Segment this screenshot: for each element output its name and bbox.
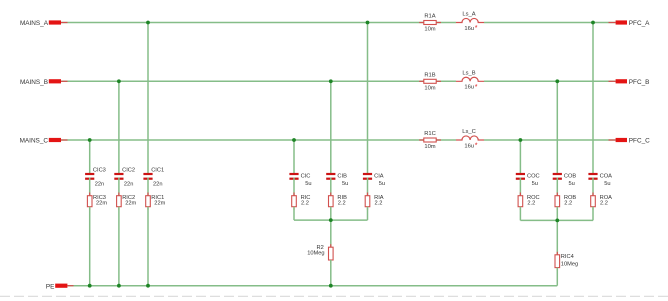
node PE / RIC3 xyxy=(88,284,92,288)
svg-text:22n: 22n xyxy=(124,181,133,187)
wire column COA from PFC_A xyxy=(592,23,594,176)
svg-text:COC: COC xyxy=(527,173,540,179)
svg-text:22m: 22m xyxy=(96,200,107,206)
svg-text:PFC_C: PFC_C xyxy=(629,138,650,145)
wire column CIA from MAINS_A xyxy=(367,23,369,176)
resistor RIC2 xyxy=(117,193,137,210)
wire RIC3 to PE rail xyxy=(89,207,91,286)
svg-text:COB: COB xyxy=(564,173,577,179)
wire COA-ROA xyxy=(592,178,594,196)
wire RIC2 to PE rail xyxy=(118,207,120,286)
svg-text:*: * xyxy=(475,23,478,32)
port PE xyxy=(46,283,74,290)
capacitor COC xyxy=(516,173,540,187)
svg-text:5u: 5u xyxy=(379,181,385,187)
node PE / RIC1 xyxy=(146,284,150,288)
wire CIC2-RIC2 xyxy=(118,178,120,196)
svg-text:RIC4: RIC4 xyxy=(561,254,574,260)
svg-text:16u: 16u xyxy=(464,85,474,91)
capacitor CIC3 xyxy=(85,168,106,188)
svg-text:MAINS_B: MAINS_B xyxy=(20,79,48,86)
wire PE rail xyxy=(67,285,557,287)
resistor R1C xyxy=(419,131,441,150)
svg-text:CIC1: CIC1 xyxy=(151,168,164,174)
svg-text:16u: 16u xyxy=(464,143,474,149)
resistor RIC3 xyxy=(87,193,107,210)
wire right bus to RIC4 xyxy=(556,220,558,254)
wire RIC to mid bus xyxy=(293,207,295,220)
node MAINS_C / CIC3 column xyxy=(88,138,92,142)
wire CIC3-RIC3 xyxy=(89,178,91,196)
svg-text:*: * xyxy=(475,82,478,91)
svg-text:R1C: R1C xyxy=(424,131,436,137)
wire column CIC1 from MAINS_A xyxy=(147,23,149,176)
node mid bus / R2 xyxy=(329,218,333,222)
svg-text:5u: 5u xyxy=(569,181,575,187)
svg-text:22n: 22n xyxy=(95,181,105,187)
node MAINS_B / CIC2 column xyxy=(117,79,121,83)
svg-text:2.2: 2.2 xyxy=(600,200,608,206)
wire CIC1-RIC1 xyxy=(147,178,149,196)
wire PFC_A rail (right segment) xyxy=(484,22,616,24)
node MAINS_C / CIC column xyxy=(292,138,296,142)
port PFC_B xyxy=(609,79,650,86)
wire mid star bus xyxy=(294,219,368,221)
svg-text:2.2: 2.2 xyxy=(564,200,572,206)
svg-text:PFC_B: PFC_B xyxy=(629,79,650,86)
port MAINS_C xyxy=(20,138,68,145)
node MAINS_A / CIA column xyxy=(366,21,370,25)
svg-text:CIC3: CIC3 xyxy=(93,168,106,174)
resistor ROC xyxy=(518,193,540,210)
wire RIC4 to PE rail xyxy=(556,268,558,286)
resistor ROB xyxy=(555,193,576,210)
wire ROA to right bus xyxy=(592,207,594,221)
wire CIA-RIA xyxy=(367,178,369,196)
svg-text:22n: 22n xyxy=(153,181,163,187)
svg-text:R1B: R1B xyxy=(424,72,435,78)
capacitor COB xyxy=(553,173,577,187)
wire RIB to mid bus xyxy=(330,207,332,220)
wire MAINS_A rail (left segment) xyxy=(61,22,456,24)
port MAINS_B xyxy=(20,79,68,86)
bottom dashed separator line xyxy=(0,295,668,297)
svg-text:CIC: CIC xyxy=(301,173,311,179)
svg-text:PFC_A: PFC_A xyxy=(629,20,650,27)
resistor R1A xyxy=(419,14,441,33)
resistor RIC xyxy=(292,193,311,210)
node MAINS_B / CIB column xyxy=(329,79,333,83)
resistor ROA xyxy=(591,193,612,210)
port PFC_C xyxy=(609,138,651,145)
svg-text:5u: 5u xyxy=(342,181,348,187)
port MAINS_A xyxy=(20,20,68,27)
capacitor CIC2 xyxy=(114,168,135,188)
svg-text:MAINS_C: MAINS_C xyxy=(20,138,49,145)
svg-text:CIC2: CIC2 xyxy=(122,168,135,174)
svg-text:16u: 16u xyxy=(464,26,474,32)
capacitor CIB xyxy=(326,173,348,187)
resistor RIC1 xyxy=(146,193,166,210)
node PE / R2 xyxy=(329,284,333,288)
svg-text:22m: 22m xyxy=(125,200,136,206)
svg-text:22m: 22m xyxy=(154,200,165,206)
inductor Ls_B xyxy=(456,70,484,91)
svg-text:PE: PE xyxy=(46,283,55,290)
svg-text:10m: 10m xyxy=(424,27,435,33)
wire column COC from PFC_C xyxy=(519,140,521,175)
svg-text:2.2: 2.2 xyxy=(527,200,535,206)
wire CIC-RIC xyxy=(293,178,295,196)
svg-text:Ls_A: Ls_A xyxy=(462,12,475,18)
svg-text:5u: 5u xyxy=(604,181,610,187)
wire column CIC3 from MAINS_C xyxy=(89,140,91,175)
svg-text:Ls_B: Ls_B xyxy=(462,70,475,76)
node PFC_C / COC column xyxy=(519,138,523,142)
svg-text:*: * xyxy=(475,141,478,150)
svg-text:10m: 10m xyxy=(424,86,435,92)
wire R2 to PE rail xyxy=(330,260,332,286)
svg-text:MAINS_A: MAINS_A xyxy=(20,20,49,27)
resistor R1B xyxy=(419,72,441,91)
svg-text:10Meg: 10Meg xyxy=(307,251,324,257)
svg-text:CIA: CIA xyxy=(374,173,384,179)
wire CIB-RIB xyxy=(330,178,332,196)
wire column COB from PFC_B xyxy=(556,81,558,175)
inductor Ls_A xyxy=(456,12,484,33)
wire MAINS_B rail (left segment) xyxy=(61,80,456,82)
node MAINS_A / CIC1 column xyxy=(146,21,150,25)
svg-text:10m: 10m xyxy=(424,144,435,150)
wire COC-ROC xyxy=(519,178,521,196)
capacitor COA xyxy=(588,173,612,187)
wire column CIC from MAINS_C xyxy=(293,140,295,175)
resistor RIC4 xyxy=(555,252,578,271)
svg-text:5u: 5u xyxy=(532,181,538,187)
resistor RIA xyxy=(365,193,384,210)
svg-text:COA: COA xyxy=(600,173,613,179)
wire RIC1 to PE rail xyxy=(147,207,149,286)
svg-text:5u: 5u xyxy=(305,181,311,187)
node right bus / RIC4 xyxy=(555,219,559,223)
wire ROC to right bus xyxy=(519,207,521,221)
wire COB-ROB xyxy=(556,178,558,196)
wire ROB to right bus xyxy=(556,207,558,221)
port PFC_A xyxy=(609,20,651,27)
capacitor CIA xyxy=(363,173,385,187)
wire column CIB from MAINS_B xyxy=(330,81,332,175)
svg-text:2.2: 2.2 xyxy=(338,200,346,206)
node PFC_B / COB column xyxy=(555,79,559,83)
capacitor CIC1 xyxy=(143,168,164,188)
inductor Ls_C xyxy=(456,129,484,150)
wire mid bus to R2 xyxy=(330,220,332,247)
resistor RIB xyxy=(329,193,348,210)
wire PFC_C rail (right segment) xyxy=(484,139,616,141)
node PFC_A / COA column xyxy=(591,21,595,25)
svg-text:2.2: 2.2 xyxy=(375,200,383,206)
wire RIA to mid bus xyxy=(367,207,369,220)
wire PFC_B rail (right segment) xyxy=(484,80,616,82)
svg-text:Ls_C: Ls_C xyxy=(462,129,476,135)
wire column CIC2 from MAINS_B xyxy=(118,81,120,175)
svg-text:CIB: CIB xyxy=(337,173,347,179)
wire right star bus xyxy=(520,219,593,221)
svg-text:2.2: 2.2 xyxy=(301,200,309,206)
svg-text:10Meg: 10Meg xyxy=(561,261,578,267)
wire MAINS_C rail (left segment) xyxy=(61,139,456,141)
resistor R2 xyxy=(307,244,333,263)
node PE / RIC2 xyxy=(117,284,121,288)
svg-text:R1A: R1A xyxy=(424,14,435,20)
capacitor CIC xyxy=(289,173,311,187)
